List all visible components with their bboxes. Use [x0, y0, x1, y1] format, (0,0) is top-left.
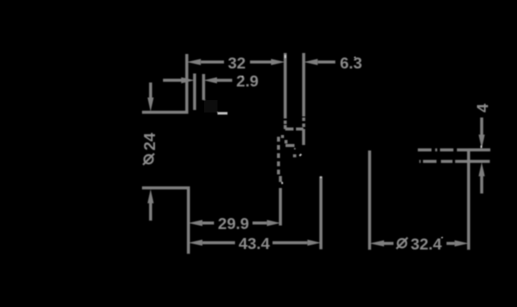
node: 32 right arrowhead [271, 59, 285, 65]
svg-text:29.9: 29.9 [218, 216, 249, 233]
wire: small hidden dash [285, 140, 288, 144]
svg-text:6.3: 6.3 [340, 55, 362, 72]
wire: centerline row2 dash b [441, 160, 453, 163]
wire: 29.9 right extension line [279, 188, 282, 226]
wire: shaft slot dash [293, 154, 296, 157]
node: white dot above 32.4 text [441, 237, 443, 238]
wire: white dash on body top edge [218, 112, 228, 115]
wire: dia24 top extension + 32 left extension corner [142, 54, 187, 112]
wire: collar top edge left segment [285, 128, 293, 131]
node: 29.9 left arrowhead [188, 220, 202, 226]
node: diameter symbol circle for 32.4 [398, 239, 407, 248]
wire: 29.9 right extension upper piece [279, 176, 282, 182]
wire: collar top edge right segment [296, 128, 303, 131]
wire: 43.4 right extension line (body right edge) [319, 177, 322, 250]
node: 4-dim down arrowhead [479, 135, 485, 149]
node: faint dark fill under 2.9 lines [204, 100, 218, 113]
node: white tick at 32 right extension top [284, 55, 286, 58]
wire: 4-dim bottom arrow stem [480, 176, 483, 194]
node: white diagonal tick at shaft slot [300, 154, 302, 156]
node: dia24 bottom arrowhead [148, 189, 154, 203]
wire: row2 solid extension [470, 160, 490, 163]
svg-text:43.4: 43.4 [239, 236, 270, 253]
node: 6.3 arrowhead [304, 59, 318, 65]
wire: dia24 top arrow stem [149, 83, 152, 99]
wire: hidden dash on 32 right extension [284, 121, 287, 125]
node: white speck above 6.3 [354, 57, 356, 58]
node: dia32.4 left arrowhead [370, 240, 384, 246]
wire: row1 solid extension [469, 148, 491, 151]
wire: 2.9 leader right [217, 79, 232, 82]
wire: small hidden dash horizontal [281, 135, 284, 138]
wire: centerline row1 dash a [418, 148, 432, 151]
wire: 32 dimension line left part [201, 61, 224, 64]
node: dia32.4 right arrowhead [455, 240, 469, 246]
wire: 43.4 dimension line left part [202, 241, 235, 244]
wire: 4-dim top arrow stem [480, 118, 483, 136]
node: dia24 top arrowhead [148, 98, 154, 112]
svg-text:32: 32 [228, 55, 246, 72]
wire: 29.9 dimension line left part [202, 222, 214, 225]
wire: centerline row1 dot [435, 148, 437, 151]
wire: dia32.4 dimension line right part [447, 242, 455, 245]
wire: dia32.4 right extension line [467, 149, 470, 250]
wire: dia32.4 dimension line left part [384, 242, 394, 245]
wire: centerline row1 dash b [440, 148, 453, 151]
wire: dia32.4 left extension line [368, 151, 371, 250]
wire: centerline row2 dash a [423, 160, 437, 163]
wire: shaft flat edge [286, 144, 295, 147]
node: white tick at body corner [320, 176, 322, 178]
node: 29.9 right arrowhead [267, 220, 281, 226]
node: 32 left arrowhead [187, 59, 201, 65]
wire: 32 right extension line [284, 53, 287, 119]
svg-text:24: 24 [142, 133, 159, 151]
wire: collar left edge [284, 125, 287, 129]
wire: hidden dashes below 6.3 extension [302, 118, 305, 129]
wire: dia24 bottom extension + left extension for 29.9/43.4 [142, 188, 188, 254]
node: shaft slot dot [294, 148, 296, 150]
wire: centerline row2 dot [419, 160, 420, 163]
node: 43.4 right arrowhead [307, 240, 321, 246]
wire: dia24 bottom arrow stem [149, 203, 152, 221]
node: diameter symbol circle for 24 [144, 155, 153, 164]
wire: 2.9 leader left [163, 79, 182, 82]
wire: hidden line dashed [277, 137, 280, 176]
wire: shaft front face edge [302, 129, 305, 145]
wire: 29.9 dimension line right part [253, 222, 267, 225]
wire: 32 dimension line right part [250, 61, 272, 64]
wire: centerline row2 dash c [455, 160, 468, 163]
node: 4-dim up arrowhead [479, 162, 485, 176]
node: white speck above 2.9 [241, 76, 243, 77]
svg-text:4: 4 [475, 104, 492, 113]
wire: 6.3 right extension line [302, 53, 305, 117]
node: 43.4 left arrowhead [188, 240, 202, 246]
wire: 43.4 dimension line right part [273, 241, 308, 244]
node: 2.9 left arrowhead [181, 77, 194, 83]
wire: 6.3 leader [318, 61, 336, 64]
node: white tick at 4-dim arrow tip [480, 146, 482, 149]
wire: centerline row1 dash c [457, 148, 469, 151]
svg-text:2.9: 2.9 [236, 74, 258, 91]
node: 2.9 right arrowhead [204, 77, 217, 83]
svg-text:32.4: 32.4 [411, 236, 442, 253]
wire: 2.9 left measured line [193, 74, 196, 111]
node: white dot near extension junction [281, 182, 283, 184]
wire: 2.9 right measured line [202, 74, 205, 100]
